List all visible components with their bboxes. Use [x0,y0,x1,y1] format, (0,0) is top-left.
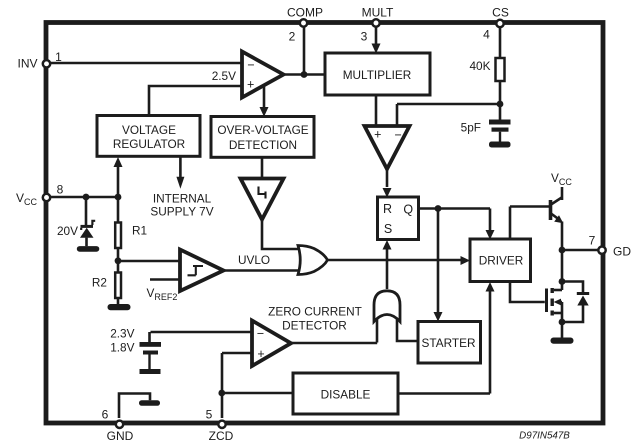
svg-text:1: 1 [55,50,62,64]
svg-text:MULT: MULT [362,6,394,20]
svg-text:VOLTAGE: VOLTAGE [122,123,176,137]
svg-text:CS: CS [492,6,509,20]
svg-text:5: 5 [206,408,213,422]
svg-text:R: R [383,202,392,216]
svg-text:2.5V: 2.5V [212,69,236,83]
svg-text:+: + [374,127,381,141]
svg-text:DRIVER: DRIVER [479,254,524,268]
svg-text:40K: 40K [470,59,491,73]
svg-text:REGULATOR: REGULATOR [113,137,185,151]
svg-text:R2: R2 [92,276,107,290]
svg-text:+: + [257,347,264,361]
svg-text:ZERO CURRENT: ZERO CURRENT [268,305,362,319]
svg-text:COMP: COMP [287,6,323,20]
svg-text:7: 7 [589,234,596,248]
svg-text:2: 2 [289,30,296,44]
svg-text:S: S [384,222,392,236]
svg-text:−: − [395,128,402,142]
svg-text:+: + [247,77,254,91]
svg-text:−: − [257,326,264,340]
svg-text:D97IN547B: D97IN547B [519,431,570,442]
svg-text:3: 3 [361,30,368,44]
svg-text:ZCD: ZCD [209,429,234,443]
svg-text:GND: GND [107,429,134,443]
svg-text:Q: Q [403,203,413,217]
svg-text:20V: 20V [57,224,78,238]
svg-text:2.3V: 2.3V [110,327,134,341]
svg-text:DETECTOR: DETECTOR [282,319,347,333]
svg-text:DETECTION: DETECTION [229,138,297,152]
svg-text:−: − [247,58,254,72]
svg-text:GD: GD [613,245,631,259]
svg-text:6: 6 [102,408,109,422]
svg-text:1.8V: 1.8V [110,341,134,355]
svg-text:OVER-VOLTAGE: OVER-VOLTAGE [217,123,308,137]
svg-text:MULTIPLIER: MULTIPLIER [343,68,412,82]
svg-text:5pF: 5pF [461,121,481,135]
svg-text:R1: R1 [132,224,147,238]
svg-text:4: 4 [483,28,490,42]
svg-text:STARTER: STARTER [422,336,476,350]
svg-text:INV: INV [17,57,37,71]
svg-text:UVLO: UVLO [238,253,270,267]
svg-text:8: 8 [57,183,64,197]
svg-text:SUPPLY 7V: SUPPLY 7V [150,204,213,218]
svg-text:DISABLE: DISABLE [321,388,371,402]
